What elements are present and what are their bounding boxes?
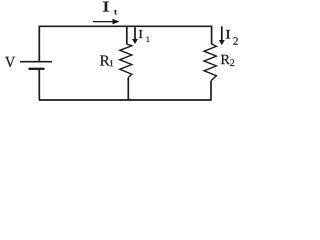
wire bottom <box>39 99 212 101</box>
resistor R1 <box>120 44 132 78</box>
label It <box>103 2 117 15</box>
wire left vertical lower <box>38 69 40 100</box>
wire left vertical upper <box>38 26 40 62</box>
wire right vertical upper <box>211 26 213 45</box>
current arrow I1 <box>132 27 138 44</box>
resistor R2 <box>204 44 216 81</box>
label R1 <box>100 55 113 66</box>
label I1 <box>139 30 150 42</box>
label R2 <box>221 55 234 66</box>
current arrow It <box>93 19 120 25</box>
wire middle vertical lower <box>127 78 129 101</box>
wire right vertical lower <box>210 81 212 100</box>
wire middle vertical upper <box>126 26 128 45</box>
current arrow I2 <box>219 26 225 45</box>
label V <box>5 57 15 68</box>
battery V1 <box>20 62 52 69</box>
wire top <box>39 25 212 27</box>
label I2 <box>226 30 238 45</box>
